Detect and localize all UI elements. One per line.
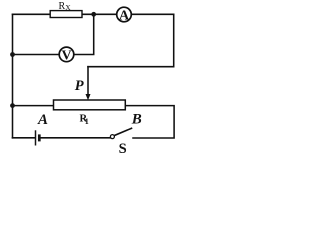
svg-text:V: V — [61, 49, 71, 64]
svg-text:A: A — [119, 9, 130, 24]
svg-text:S: S — [119, 141, 127, 157]
svg-text:1: 1 — [85, 117, 89, 126]
svg-text:X: X — [65, 3, 71, 12]
svg-text:B: B — [131, 111, 142, 127]
svg-text:P: P — [75, 78, 84, 94]
svg-text:A: A — [37, 112, 48, 128]
